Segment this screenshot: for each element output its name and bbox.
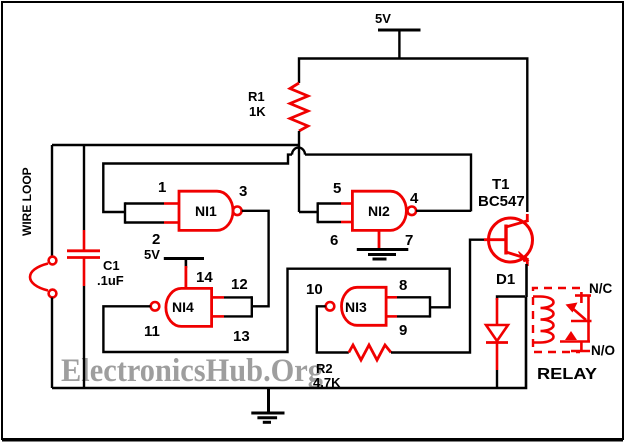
- svg-text:NI3: NI3: [345, 299, 367, 315]
- wire loop node horizontal: [52, 144, 299, 146]
- svg-text:R2: R2: [316, 361, 333, 376]
- wire NI2 output: [416, 210, 471, 212]
- transistor T1: [484, 214, 533, 266]
- relay coil: [533, 297, 554, 343]
- wire D1 bottom lead: [496, 370, 498, 388]
- wire capacitor top lead: [83, 145, 85, 230]
- wire R1 bottom to NI2 inputs: [298, 131, 300, 212]
- label C1 .1uF: [97, 258, 124, 288]
- svg-text:5V: 5V: [375, 11, 391, 26]
- nand gate NI4: [151, 288, 212, 326]
- sensor wire loop: [30, 257, 56, 298]
- wire NI2 input tie: [299, 202, 353, 223]
- svg-text:2: 2: [152, 231, 160, 248]
- wire NI1 out to NI4 inputs: [211, 211, 269, 318]
- wire NI1 input tie: [125, 202, 180, 223]
- nand gate NI2: [352, 191, 416, 230]
- svg-text:11: 11: [144, 323, 160, 340]
- wire 5V rail: [299, 59, 527, 213]
- svg-text:N/O: N/O: [591, 343, 615, 358]
- nand gate NI3: [326, 287, 386, 325]
- wire T1 emitter down: [525, 264, 528, 297]
- svg-text:9: 9: [399, 322, 407, 339]
- nand gate NI1: [179, 191, 242, 230]
- svg-text:T1: T1: [492, 176, 510, 193]
- resistor R2: [349, 345, 391, 360]
- capacitor C1: [67, 230, 100, 286]
- svg-text:.1uF: .1uF: [97, 273, 124, 288]
- svg-text:10: 10: [306, 281, 323, 298]
- relay box: [533, 288, 580, 352]
- relay contact N/O: [560, 321, 590, 352]
- wire D1 top lead: [497, 297, 525, 301]
- relay common arm: [566, 296, 592, 321]
- svg-text:4: 4: [410, 190, 419, 207]
- svg-text:7: 7: [405, 232, 413, 249]
- wire loop bottom to ground rail: [51, 298, 53, 389]
- svg-text:WIRE LOOP: WIRE LOOP: [20, 167, 34, 236]
- ground symbol bottom: [251, 388, 284, 422]
- wire NI4 out to NI3 inputs: [103, 269, 449, 352]
- diode D1: [486, 298, 508, 370]
- svg-text:8: 8: [399, 277, 407, 294]
- wire bottom ground rail: [52, 297, 526, 388]
- svg-text:5V: 5V: [144, 247, 160, 262]
- svg-text:NI4: NI4: [172, 299, 194, 315]
- svg-text:C1: C1: [103, 258, 120, 273]
- wire NI3 out down to R2: [317, 306, 349, 352]
- wire feedback NI2 out to NI1 in with hop: [103, 148, 471, 212]
- label R2 4.7K: [313, 361, 341, 390]
- svg-text:5: 5: [333, 180, 341, 197]
- power 5V bar at NI4 pin 14: [144, 247, 204, 289]
- label R1 1K: [248, 89, 266, 119]
- svg-text:3: 3: [239, 183, 247, 200]
- svg-text:RELAY: RELAY: [537, 366, 597, 383]
- svg-text:D1: D1: [496, 271, 515, 288]
- ground at NI2 pin 7: [357, 230, 409, 259]
- wire R2 to T1 base: [391, 240, 484, 353]
- svg-text:1K: 1K: [249, 104, 266, 119]
- resistor R1: [290, 83, 308, 131]
- svg-text:NI1: NI1: [195, 203, 217, 219]
- label T1 BC547: [478, 176, 525, 210]
- svg-text:13: 13: [233, 328, 250, 345]
- relay contact N/C: [575, 292, 591, 303]
- svg-text:N/C: N/C: [589, 281, 613, 296]
- svg-text:1: 1: [158, 179, 166, 196]
- svg-text:R1: R1: [248, 89, 265, 104]
- power 5V supply symbol: [375, 11, 421, 59]
- svg-text:ElectronicsHub.Org: ElectronicsHub.Org: [61, 353, 323, 389]
- svg-text:6: 6: [330, 232, 338, 249]
- svg-text:NI2: NI2: [368, 203, 390, 219]
- svg-text:12: 12: [231, 276, 248, 293]
- svg-text:BC547: BC547: [478, 193, 525, 210]
- svg-text:14: 14: [196, 269, 213, 286]
- wire capacitor bottom lead: [83, 286, 85, 388]
- wire left branch to loop terminal: [51, 145, 53, 257]
